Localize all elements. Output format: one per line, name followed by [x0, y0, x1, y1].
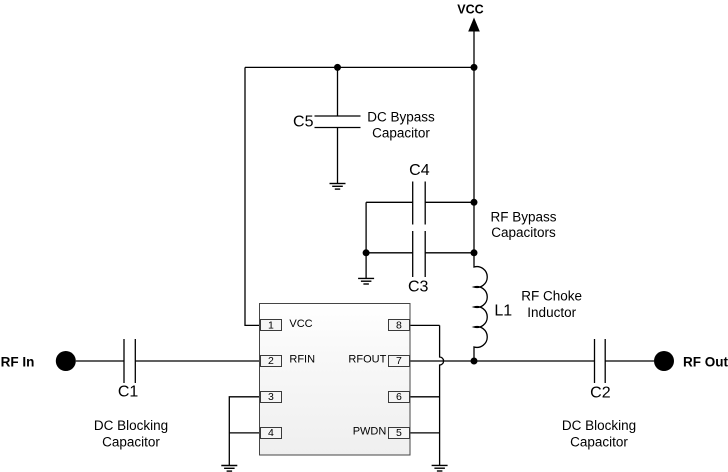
svg-text:RF Choke: RF Choke	[521, 289, 582, 304]
svg-text:4: 4	[268, 427, 274, 439]
svg-text:RF Bypass: RF Bypass	[490, 210, 556, 225]
svg-text:VCC: VCC	[289, 318, 312, 330]
svg-text:C3: C3	[408, 278, 429, 295]
svg-text:RFIN: RFIN	[289, 354, 315, 366]
svg-text:Capacitor: Capacitor	[372, 125, 430, 140]
svg-text:Capacitors: Capacitors	[491, 225, 556, 240]
svg-text:6: 6	[396, 391, 402, 403]
svg-text:Capacitor: Capacitor	[102, 435, 160, 450]
svg-text:8: 8	[396, 319, 402, 331]
svg-text:2: 2	[268, 355, 274, 367]
svg-text:Inductor: Inductor	[527, 305, 576, 320]
svg-text:Capacitor: Capacitor	[570, 435, 628, 450]
svg-text:PWDN: PWDN	[353, 426, 387, 438]
svg-text:RF Out: RF Out	[683, 355, 728, 370]
svg-text:C1: C1	[118, 384, 139, 401]
svg-text:3: 3	[268, 391, 274, 403]
svg-text:DC Bypass: DC Bypass	[367, 110, 435, 125]
svg-text:7: 7	[396, 355, 402, 367]
svg-text:RFOUT: RFOUT	[348, 354, 386, 366]
svg-text:DC Blocking: DC Blocking	[562, 418, 636, 433]
svg-text:5: 5	[396, 427, 402, 439]
svg-text:1: 1	[268, 319, 274, 331]
svg-text:C5: C5	[293, 113, 314, 130]
svg-text:VCC: VCC	[457, 2, 483, 16]
svg-text:C2: C2	[590, 384, 611, 401]
svg-text:RF In: RF In	[1, 355, 35, 370]
svg-text:L1: L1	[494, 302, 512, 319]
svg-text:C4: C4	[409, 162, 430, 179]
svg-text:DC Blocking: DC Blocking	[94, 418, 168, 433]
